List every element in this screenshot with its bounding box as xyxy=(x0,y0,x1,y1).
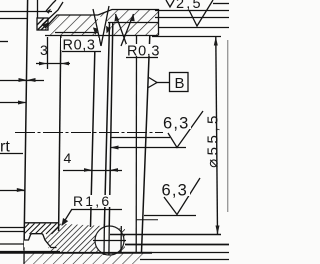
svg-text:3: 3 xyxy=(40,42,48,58)
svg-text:R0,3: R0,3 xyxy=(127,44,160,60)
svg-text:4: 4 xyxy=(64,150,72,166)
svg-text:6,3: 6,3 xyxy=(162,182,189,200)
svg-text:6,3: 6,3 xyxy=(163,115,190,133)
svg-text:rt: rt xyxy=(0,139,10,156)
svg-text:R1,6: R1,6 xyxy=(73,193,111,209)
svg-text:R0,3: R0,3 xyxy=(63,38,96,54)
svg-text:B: B xyxy=(175,75,185,92)
svg-text:2,5: 2,5 xyxy=(176,0,203,12)
svg-text:⌀55,5: ⌀55,5 xyxy=(205,112,222,168)
